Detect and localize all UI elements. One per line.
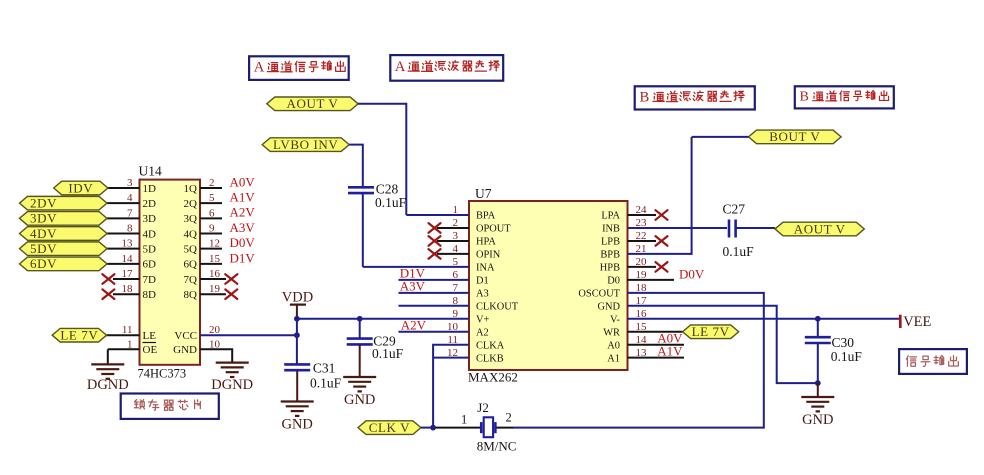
svg-text:D1V: D1V	[230, 250, 256, 265]
capacitor C27	[729, 220, 736, 238]
port CLK V	[358, 420, 421, 435]
U7 pin 4 stub	[437, 253, 469, 255]
wire C28 to INA pin 5	[363, 266, 469, 268]
svg-text:1: 1	[461, 413, 467, 427]
svg-text:A2: A2	[476, 327, 489, 338]
svg-text:A0: A0	[607, 340, 620, 351]
junction VCC pin 20 on VDD stem	[294, 332, 300, 338]
U14 pin 18 (8D) stub	[113, 293, 140, 295]
svg-text:U14: U14	[139, 164, 162, 179]
svg-text:0.1uF: 0.1uF	[831, 349, 863, 364]
U7 pin 22 stub	[628, 240, 657, 242]
op-chip U7 MAX262	[468, 186, 628, 385]
U14 pin 13 (5D) stub	[107, 248, 140, 250]
svg-text:BPB: BPB	[600, 250, 620, 261]
junction C30/GND17	[815, 380, 821, 386]
U14 pin 4 (2D) stub	[107, 202, 140, 204]
svg-text:3DV: 3DV	[30, 211, 57, 226]
svg-text:2D: 2D	[143, 198, 157, 210]
svg-text:B: B	[800, 89, 809, 105]
U14 pin 17 (7D) stub	[113, 278, 140, 280]
crystal J2 8M/NC	[461, 400, 516, 454]
U14 pin 6 (3Q) stub	[200, 217, 222, 219]
stem to GND	[817, 383, 819, 396]
wire INB pin 23 to C27	[628, 227, 728, 229]
U7 pin 20 stub	[628, 266, 657, 268]
no-connect X pin 2	[429, 223, 441, 233]
svg-text:DGND: DGND	[87, 377, 129, 393]
wire net D1V to pin 6	[399, 279, 470, 281]
svg-text:VEE: VEE	[903, 314, 931, 330]
port LE 7V (left)	[52, 328, 106, 343]
no-connect X pin 16	[225, 274, 237, 284]
svg-text:CLKA: CLKA	[476, 340, 505, 351]
svg-text:6D: 6D	[143, 259, 157, 271]
svg-text:MAX262: MAX262	[468, 370, 518, 385]
svg-text:BPA: BPA	[476, 211, 496, 222]
svg-text:8M/NC: 8M/NC	[477, 439, 517, 454]
wire C29 to GND	[359, 344, 361, 376]
U7 pin 3 stub	[437, 240, 469, 242]
U14 pin 15 (6Q) stub	[200, 263, 222, 265]
text 锁存器芯片	[134, 400, 200, 411]
svg-text:0.1uF: 0.1uF	[723, 244, 755, 259]
svg-text:A1V: A1V	[657, 343, 683, 358]
svg-text:GND: GND	[281, 417, 312, 433]
port 5DV	[20, 241, 108, 256]
no-connect X pin 20	[656, 262, 668, 272]
wire C31 to GND	[296, 371, 298, 401]
port 2DV	[20, 195, 108, 210]
no-connect X pin 3	[429, 236, 441, 246]
svg-text:8Q: 8Q	[184, 289, 198, 301]
junction C29 top on VDD rail	[357, 316, 363, 322]
svg-text:C30: C30	[832, 335, 855, 350]
ground GND (C30)	[801, 397, 834, 411]
junction CLK node	[430, 425, 436, 431]
U14 pin 2 (1Q) stub	[200, 187, 222, 189]
U14 pin 7 (3D) stub	[107, 217, 140, 219]
junction C30 top on V- wire	[815, 316, 821, 322]
svg-text:18: 18	[122, 283, 134, 295]
svg-text:8D: 8D	[143, 289, 157, 301]
svg-text:OE: OE	[143, 344, 158, 356]
wire VDD down to C31	[296, 319, 298, 365]
svg-text:CLKB: CLKB	[476, 353, 504, 364]
wire OE to DGND	[107, 349, 109, 364]
svg-text:19: 19	[209, 283, 221, 295]
svg-text:A1: A1	[607, 353, 620, 364]
svg-text:GND: GND	[597, 301, 620, 312]
no-connect X pin 19	[225, 289, 237, 299]
svg-text:C31: C31	[313, 361, 336, 376]
wire C27 to AOUT V right	[736, 227, 775, 229]
svg-text:GND: GND	[802, 412, 833, 428]
no-connect X pin 4	[429, 249, 441, 259]
junction VDD rail / V+	[294, 316, 300, 322]
port 3DV	[20, 211, 108, 226]
wire AOUT V to BPA	[358, 104, 406, 215]
svg-text:7D: 7D	[143, 274, 157, 286]
svg-text:LPA: LPA	[601, 211, 620, 222]
svg-text:D0V: D0V	[230, 235, 256, 250]
latch U14 74HC373	[138, 164, 201, 381]
svg-text:4: 4	[127, 192, 133, 204]
svg-text:A: A	[254, 60, 265, 76]
svg-text:11: 11	[122, 324, 133, 336]
svg-text:2Q: 2Q	[184, 198, 198, 210]
svg-text:12: 12	[209, 238, 220, 250]
U7 pin 13 (A1) stub	[628, 357, 685, 359]
U14 pin 12 (5Q) stub	[200, 248, 222, 250]
svg-text:V+: V+	[476, 314, 490, 325]
svg-text:AOUT V: AOUT V	[287, 96, 339, 111]
port 6DV	[20, 256, 108, 271]
text A通道滤波器选择	[395, 59, 500, 75]
svg-text:OSCOUT: OSCOUT	[578, 288, 620, 299]
svg-text:C27: C27	[723, 202, 746, 217]
svg-text:1Q: 1Q	[184, 183, 198, 195]
svg-text:WR: WR	[603, 327, 620, 338]
svg-text:3Q: 3Q	[184, 213, 198, 225]
svg-text:LE 7V: LE 7V	[60, 328, 98, 343]
capacitor C29	[347, 339, 373, 345]
svg-text:LPB: LPB	[601, 237, 620, 248]
U7 pin 14 (A0) stub	[628, 344, 685, 346]
svg-text:D0V: D0V	[679, 266, 705, 281]
svg-text:4D: 4D	[143, 228, 157, 240]
U14 pin 16 (7Q) stub	[200, 278, 226, 280]
svg-text:17: 17	[122, 268, 134, 280]
port AOUT V (right)	[775, 221, 864, 236]
svg-text:6Q: 6Q	[184, 259, 198, 271]
svg-text:16: 16	[209, 268, 221, 280]
wire AOUT V vertical to BPA pin 1	[406, 214, 469, 216]
wire VDD rail to V+ pin 9	[297, 318, 469, 320]
U14 pin 14 (6D) stub	[107, 263, 140, 265]
U7 pin 24 stub	[628, 214, 657, 216]
svg-text:2DV: 2DV	[30, 195, 57, 210]
svg-text:0.1uF: 0.1uF	[375, 195, 407, 210]
port IDV	[54, 180, 108, 195]
no-connect X pin 22	[656, 236, 668, 246]
no-connect X pin 17	[102, 274, 114, 284]
port LVBO INV	[262, 137, 349, 152]
svg-text:CLKOUT: CLKOUT	[476, 301, 519, 312]
VDD bar stem	[296, 305, 298, 319]
svg-text:OPOUT: OPOUT	[476, 224, 511, 235]
svg-text:B: B	[640, 90, 650, 106]
wire net A2V to pin 10	[399, 331, 470, 333]
no-connect X pin 24	[656, 210, 668, 220]
J2 pin 1 lead	[433, 427, 480, 429]
U14 pin 8 (4D) stub	[107, 233, 140, 235]
svg-text:A3: A3	[476, 288, 489, 299]
capacitor C31	[284, 364, 310, 370]
svg-text:1D: 1D	[143, 183, 157, 195]
svg-text:A3V: A3V	[230, 220, 256, 235]
label box: latch chip (Chinese)	[121, 394, 219, 419]
ground GND (C29)	[343, 377, 376, 391]
port BOUT V	[749, 129, 842, 144]
wire V- down to C30	[817, 319, 819, 337]
wire CLKA pin 11 down to CLK node	[433, 345, 469, 428]
svg-text:HPB: HPB	[600, 262, 620, 273]
svg-text:0.1uF: 0.1uF	[372, 346, 404, 361]
svg-text:GND: GND	[344, 392, 375, 408]
svg-text:5: 5	[209, 192, 215, 204]
wire rail down to C29	[359, 319, 361, 339]
svg-text:7: 7	[127, 207, 133, 219]
wire BOUT V to vertical	[692, 136, 749, 138]
svg-text:7Q: 7Q	[184, 274, 198, 286]
svg-text:INA: INA	[476, 262, 495, 273]
ground DGND (right)	[216, 363, 249, 377]
svg-text:BOUT V: BOUT V	[769, 129, 820, 144]
wire OSCOUT pin 18 to crystal J2 pin 2	[514, 293, 764, 428]
power port VEE	[899, 315, 902, 328]
U14 pin 5 (2Q) stub	[200, 202, 222, 204]
wire V- pin 16 to VEE	[628, 318, 900, 320]
svg-text:A0V: A0V	[230, 174, 256, 189]
svg-text:10: 10	[209, 338, 221, 350]
svg-text:2: 2	[506, 411, 512, 425]
svg-text:0.1uF: 0.1uF	[310, 376, 342, 391]
no-connect X pin 18	[102, 289, 114, 299]
U7 pin 15 (WR) stub	[628, 331, 683, 333]
J2 pin 2 lead	[497, 427, 514, 429]
label box: signal output	[899, 349, 967, 374]
svg-text:HPA: HPA	[476, 237, 496, 248]
svg-text:15: 15	[209, 253, 221, 265]
svg-text:LE 7V: LE 7V	[692, 324, 730, 339]
text A通道信号输出	[254, 60, 345, 76]
svg-text:4Q: 4Q	[184, 228, 198, 240]
U7 pin 2 stub	[437, 227, 469, 229]
wire C28 bottom to INA	[362, 193, 364, 267]
svg-text:DGND: DGND	[211, 377, 253, 393]
text B通道滤波器选择	[640, 90, 745, 106]
svg-text:6DV: 6DV	[30, 256, 57, 271]
svg-text:CLK V: CLK V	[369, 420, 410, 435]
svg-text:3D: 3D	[143, 213, 157, 225]
svg-text:OPIN: OPIN	[476, 250, 501, 261]
svg-text:5DV: 5DV	[30, 241, 57, 256]
svg-text:8: 8	[127, 223, 133, 235]
ground DGND (left)	[91, 364, 124, 378]
svg-text:LE: LE	[143, 330, 157, 342]
svg-text:LVBO INV: LVBO INV	[273, 137, 338, 152]
svg-text:5D: 5D	[143, 243, 157, 255]
U14 pin 9 (4Q) stub	[200, 233, 222, 235]
svg-text:J2: J2	[477, 400, 489, 415]
svg-text:74HC373: 74HC373	[138, 367, 187, 381]
svg-text:D0: D0	[607, 275, 620, 286]
capacitor C30	[805, 337, 831, 343]
svg-text:4DV: 4DV	[30, 226, 57, 241]
svg-text:GND: GND	[173, 344, 197, 356]
wire stub CLKOUT pin 8	[399, 305, 470, 307]
svg-text:VCC: VCC	[174, 330, 197, 342]
port 4DV	[20, 226, 108, 241]
U14 pin 3 (1D) stub	[107, 187, 140, 189]
svg-text:A3V: A3V	[400, 279, 426, 294]
wire U14 VCC pin 20 to VDD rail	[200, 334, 297, 336]
svg-text:INB: INB	[602, 224, 620, 235]
wire CLK V to junction	[421, 427, 433, 429]
wire C30 bottom to ground node	[817, 344, 819, 383]
label box: A channel signal output	[249, 56, 349, 80]
svg-text:AOUT V: AOUT V	[794, 221, 846, 236]
text 信号输出	[906, 356, 958, 367]
U7 pin 19 (D0) stub	[628, 279, 675, 281]
svg-text:20: 20	[209, 324, 221, 336]
svg-text:3: 3	[127, 177, 133, 189]
port AOUT V (top)	[267, 96, 358, 111]
svg-text:VDD: VDD	[282, 290, 313, 306]
wire net A3V to pin 7	[399, 292, 470, 294]
wire U14 GND pin 10 down to DGND	[200, 349, 232, 362]
svg-text:A2V: A2V	[230, 205, 256, 220]
svg-text:A: A	[395, 59, 406, 75]
label box: A channel filter select	[390, 55, 503, 81]
svg-text:V-: V-	[610, 314, 621, 325]
svg-text:9: 9	[209, 223, 215, 235]
svg-text:U7: U7	[475, 186, 492, 201]
svg-text:A2V: A2V	[401, 318, 427, 333]
wire GND pin 17 to C30 ground node	[628, 306, 818, 383]
label box: B channel signal output	[795, 86, 894, 108]
svg-text:2: 2	[209, 177, 215, 189]
text B通道信号输出	[800, 89, 889, 105]
port LE 7V (right)	[683, 324, 739, 339]
wire CLKB pin 12 to CLK vertical	[433, 357, 469, 359]
svg-text:IDV: IDV	[68, 180, 93, 195]
U14 pin 19 (8Q) stub	[200, 293, 226, 295]
svg-text:6: 6	[209, 207, 215, 219]
U14 pin 1 (OE) stub	[108, 348, 140, 350]
capacitor C28	[348, 187, 374, 193]
svg-text:D1: D1	[476, 275, 489, 286]
svg-text:5Q: 5Q	[184, 243, 198, 255]
U14 pin 11 (LE) stub	[105, 334, 140, 336]
svg-text:14: 14	[122, 253, 134, 265]
svg-text:13: 13	[122, 238, 134, 250]
svg-text:1: 1	[127, 338, 133, 350]
wire LVBO INV down to C28	[349, 145, 363, 188]
ground GND (C31)	[281, 402, 314, 416]
label box: B channel filter select	[635, 86, 755, 109]
svg-text:A1V: A1V	[230, 190, 256, 205]
wire BPB pin 21 up to BOUT V	[628, 137, 692, 254]
